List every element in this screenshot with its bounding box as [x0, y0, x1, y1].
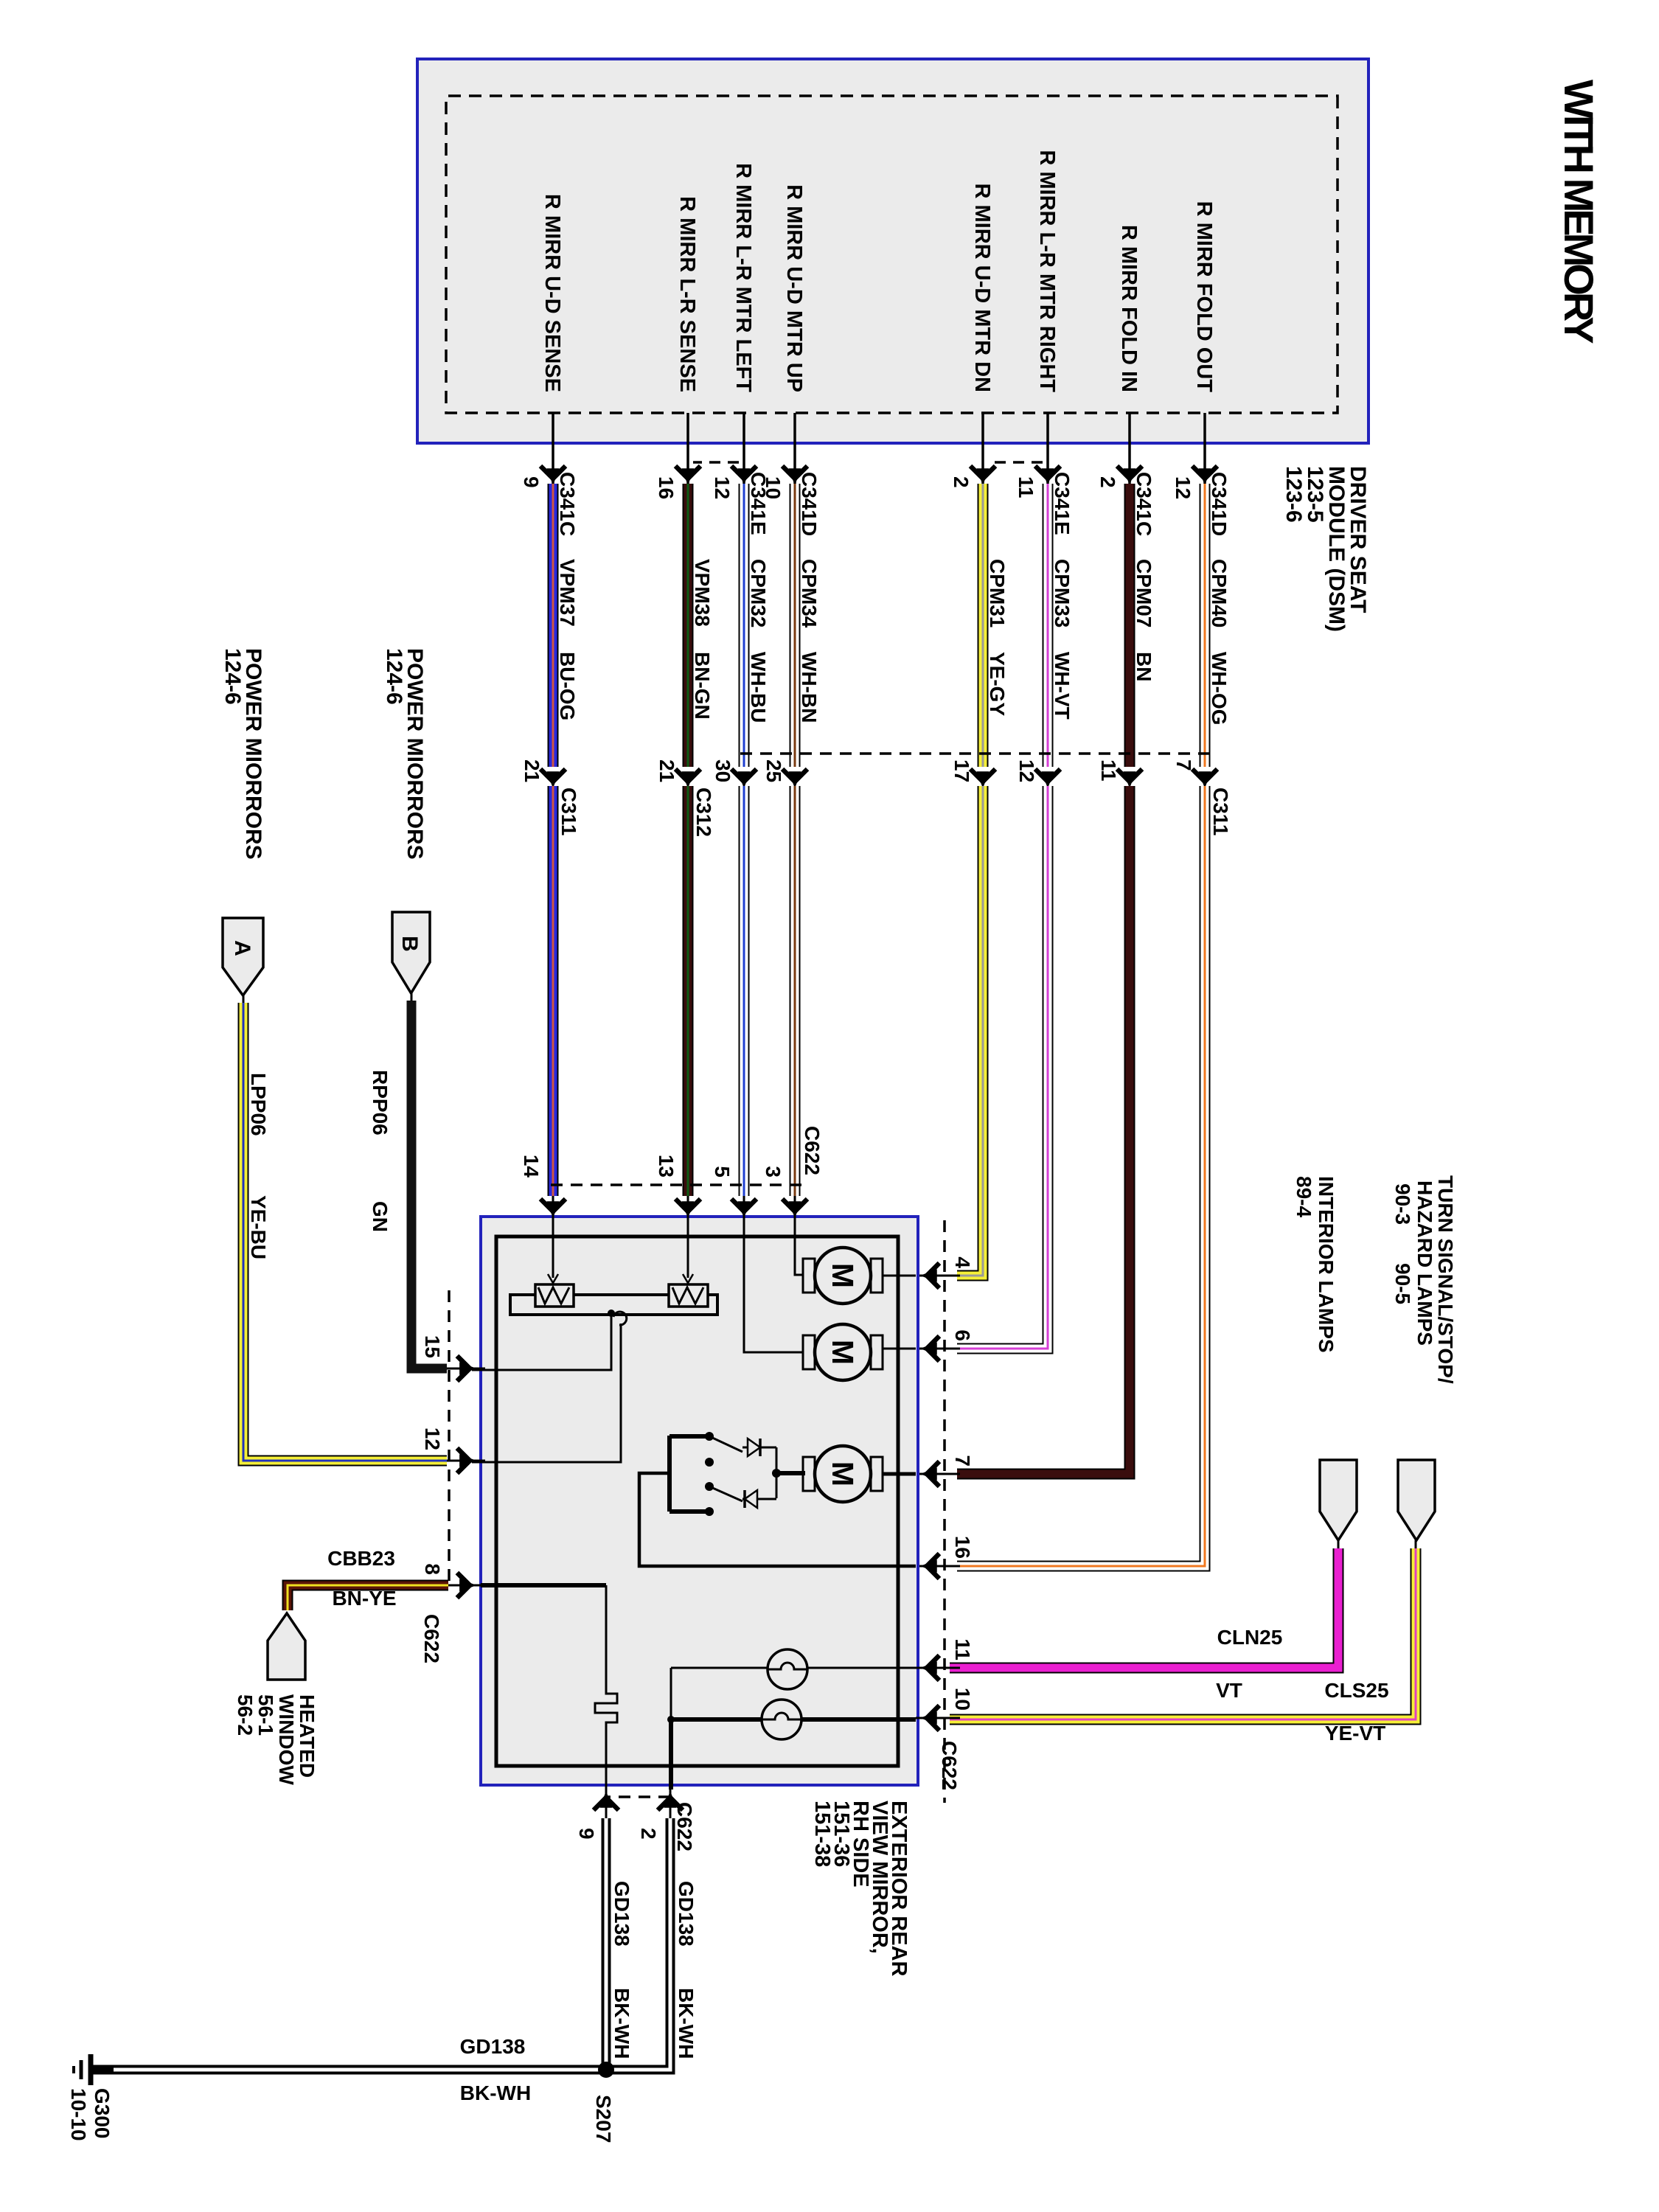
svg-text:30: 30 — [712, 759, 734, 782]
svg-text:12: 12 — [1172, 476, 1194, 499]
svg-text:LPP06: LPP06 — [247, 1073, 270, 1136]
svg-text:123-6: 123-6 — [1281, 466, 1306, 523]
svg-text:R MIRR U-D MTR UP: R MIRR U-D MTR UP — [782, 184, 806, 392]
svg-text:C311: C311 — [1209, 787, 1232, 835]
svg-text:3: 3 — [762, 1166, 785, 1178]
svg-text:A: A — [230, 940, 254, 956]
svg-text:CLN25: CLN25 — [1217, 1626, 1283, 1649]
svg-text:R MIRR U-D SENSE: R MIRR U-D SENSE — [540, 194, 564, 392]
svg-text:BK-WH: BK-WH — [675, 1988, 698, 2059]
svg-text:R MIRR L-R SENSE: R MIRR L-R SENSE — [675, 196, 699, 392]
svg-text:CPM34: CPM34 — [798, 559, 821, 628]
svg-text:TURN SIGNAL/STOP/: TURN SIGNAL/STOP/ — [1434, 1175, 1457, 1384]
svg-text:21: 21 — [521, 759, 543, 782]
svg-text:WITH MEMORY: WITH MEMORY — [1556, 80, 1602, 344]
svg-text:10-10: 10-10 — [67, 2088, 90, 2141]
svg-text:C341C: C341C — [556, 472, 579, 536]
svg-text:G300: G300 — [91, 2088, 114, 2139]
svg-text:C311: C311 — [557, 787, 580, 835]
svg-text:VPM38: VPM38 — [691, 559, 714, 627]
svg-text:25: 25 — [762, 759, 785, 782]
svg-text:2: 2 — [950, 476, 973, 488]
svg-text:10: 10 — [951, 1688, 974, 1711]
svg-text:9: 9 — [520, 476, 543, 488]
svg-text:CPM31: CPM31 — [986, 559, 1009, 627]
svg-text:11: 11 — [1097, 759, 1120, 782]
svg-text:21: 21 — [655, 759, 678, 782]
svg-text:56-1: 56-1 — [254, 1694, 277, 1736]
svg-text:4: 4 — [951, 1256, 974, 1268]
svg-text:14: 14 — [520, 1155, 543, 1178]
svg-text:HEATED: HEATED — [296, 1694, 319, 1778]
svg-text:2: 2 — [637, 1828, 660, 1840]
svg-text:CPM33: CPM33 — [1051, 559, 1074, 627]
svg-text:M: M — [826, 1340, 860, 1365]
svg-text:YE-BU: YE-BU — [247, 1195, 270, 1259]
svg-text:BN-YE: BN-YE — [332, 1587, 396, 1610]
svg-text:WH-BN: WH-BN — [798, 652, 821, 723]
svg-text:90-3: 90-3 — [1391, 1183, 1414, 1225]
svg-text:R MIRR FOLD OUT: R MIRR FOLD OUT — [1192, 201, 1216, 393]
svg-text:VPM37: VPM37 — [556, 559, 579, 627]
svg-text:7: 7 — [951, 1455, 974, 1467]
svg-text:C622: C622 — [420, 1614, 443, 1663]
svg-text:YE-GY: YE-GY — [986, 652, 1009, 716]
svg-text:16: 16 — [951, 1536, 974, 1559]
svg-text:C622: C622 — [801, 1126, 824, 1175]
svg-text:16: 16 — [655, 476, 678, 499]
svg-text:B: B — [397, 936, 422, 952]
svg-text:HAZARD LAMPS: HAZARD LAMPS — [1413, 1180, 1436, 1346]
svg-text:C622: C622 — [938, 1741, 961, 1790]
svg-text:GD138: GD138 — [460, 2035, 526, 2058]
svg-text:C622: C622 — [673, 1802, 696, 1851]
svg-text:YE-VT: YE-VT — [1325, 1722, 1385, 1745]
svg-text:M: M — [826, 1461, 860, 1486]
svg-text:WH-BU: WH-BU — [747, 652, 770, 723]
svg-text:8: 8 — [421, 1563, 444, 1575]
svg-text:CPM40: CPM40 — [1208, 559, 1231, 627]
svg-text:CLS25: CLS25 — [1324, 1679, 1388, 1702]
svg-text:WINDOW: WINDOW — [275, 1694, 298, 1785]
svg-text:CPM07: CPM07 — [1133, 559, 1155, 627]
svg-text:C341E: C341E — [1051, 472, 1074, 535]
svg-text:WH-VT: WH-VT — [1051, 652, 1074, 720]
svg-text:2: 2 — [1096, 476, 1119, 488]
svg-text:C341D: C341D — [798, 472, 821, 536]
svg-text:56-2: 56-2 — [234, 1694, 257, 1736]
svg-text:11: 11 — [1015, 476, 1037, 498]
svg-text:17: 17 — [950, 759, 973, 782]
svg-text:7: 7 — [1172, 759, 1195, 771]
svg-text:124-6: 124-6 — [220, 648, 245, 705]
svg-text:151-38: 151-38 — [810, 1801, 834, 1867]
svg-text:R MIRR U-D MTR DN: R MIRR U-D MTR DN — [970, 183, 994, 392]
svg-text:89-4: 89-4 — [1293, 1176, 1315, 1217]
svg-text:CPM32: CPM32 — [747, 559, 770, 627]
svg-text:C341C: C341C — [1133, 472, 1155, 536]
svg-text:9: 9 — [575, 1828, 598, 1840]
svg-text:6: 6 — [951, 1329, 974, 1341]
svg-text:11: 11 — [951, 1638, 974, 1660]
svg-text:C341D: C341D — [1208, 472, 1231, 536]
svg-text:13: 13 — [655, 1155, 678, 1178]
svg-text:CBB23: CBB23 — [327, 1547, 395, 1570]
svg-text:S207: S207 — [592, 2095, 615, 2143]
svg-text:RPP06: RPP06 — [369, 1070, 392, 1135]
svg-text:BN: BN — [1133, 652, 1155, 681]
svg-text:BK-WH: BK-WH — [611, 1988, 633, 2059]
svg-text:5: 5 — [711, 1166, 734, 1178]
svg-text:R MIRR L-R MTR RIGHT: R MIRR L-R MTR RIGHT — [1035, 150, 1059, 392]
svg-text:BN-GN: BN-GN — [691, 652, 714, 720]
svg-text:C341E: C341E — [747, 472, 770, 535]
svg-text:R MIRR L-R MTR LEFT: R MIRR L-R MTR LEFT — [731, 163, 755, 392]
svg-text:BU-OG: BU-OG — [556, 652, 579, 720]
svg-text:C312: C312 — [692, 787, 715, 837]
svg-text:BK-WH: BK-WH — [460, 2081, 531, 2104]
svg-text:GD138: GD138 — [675, 1881, 698, 1947]
svg-text:R MIRR FOLD IN: R MIRR FOLD IN — [1117, 225, 1141, 392]
svg-text:GN: GN — [369, 1201, 392, 1232]
svg-text:15: 15 — [421, 1335, 444, 1358]
svg-text:WH-OG: WH-OG — [1208, 652, 1231, 726]
svg-text:90-5: 90-5 — [1391, 1263, 1414, 1304]
svg-text:GD138: GD138 — [611, 1881, 633, 1947]
svg-text:INTERIOR LAMPS: INTERIOR LAMPS — [1315, 1176, 1338, 1353]
svg-text:12: 12 — [421, 1427, 444, 1450]
svg-text:M: M — [826, 1263, 860, 1288]
svg-text:124-6: 124-6 — [382, 648, 406, 705]
svg-text:VT: VT — [1216, 1679, 1242, 1702]
svg-text:12: 12 — [711, 476, 734, 499]
svg-text:12: 12 — [1015, 759, 1038, 782]
